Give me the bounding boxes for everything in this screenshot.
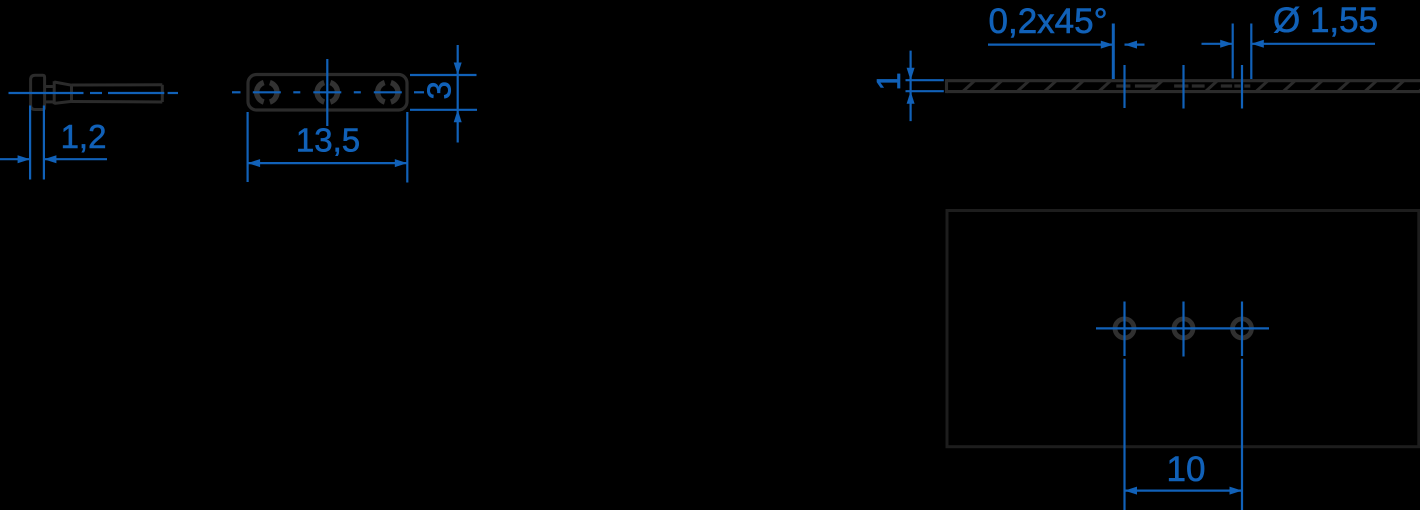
dimension 1,2 extension line right [43, 106, 45, 180]
dimension 1,2 extension line left [29, 106, 31, 180]
hole 3 centerline through rod [1241, 65, 1243, 109]
dimension 0,2x45 arrow left [1101, 41, 1114, 49]
dimension 13,5 arrow right [395, 159, 408, 167]
hole 2 right arc [330, 83, 337, 102]
svg-text:Ø 1,55: Ø 1,55 [1273, 1, 1378, 40]
svg-text:1: 1 [870, 72, 907, 90]
dimension 13,5 extension line left [247, 112, 249, 182]
rivet head [31, 75, 45, 109]
dimension 13,5 extension line right [406, 112, 408, 183]
rivet neck bottom edge [45, 100, 55, 103]
hole 3 circle [1233, 319, 1252, 338]
diameter dimension line right [1251, 43, 1375, 45]
dimension 10 line [1125, 490, 1243, 492]
svg-text:10: 10 [1167, 450, 1206, 489]
dimension 1 arrow bottom [907, 91, 915, 104]
centerline of rivet axis [9, 92, 84, 94]
rivet shaft end edge [161, 85, 164, 102]
dimension 3 extension line bottom [410, 109, 477, 111]
centerline of strip [232, 91, 241, 93]
dimension 3 arrow bottom [454, 110, 462, 123]
diameter dimension extension line right [1250, 24, 1252, 80]
svg-text:13,5: 13,5 [296, 122, 360, 159]
dimension 3 arrow top [454, 63, 462, 76]
hole 2 left arc [317, 83, 324, 102]
diameter dimension arrow left [1220, 40, 1233, 48]
diameter dimension extension line left [1232, 24, 1234, 79]
dimension 1,2 arrow left [18, 155, 31, 163]
hole 3 right arc [391, 83, 398, 102]
hole 2 vertical centerline [1182, 302, 1184, 357]
rivet shaft top edge [72, 83, 163, 86]
section hatching [963, 81, 1420, 92]
dimension 10 extension line right [1241, 359, 1243, 510]
strip rectangle outline [947, 211, 1419, 447]
rivet cone top edge [54, 82, 71, 85]
hole 2 centerline through rod [1182, 65, 1184, 109]
hole 3 vertical centerline [1241, 302, 1243, 357]
svg-text:3: 3 [421, 81, 458, 99]
rod left end edge [945, 79, 948, 93]
hole 1 centerline through rod [1123, 65, 1125, 108]
svg-text:0,2x45°: 0,2x45° [989, 2, 1108, 41]
hole 3 left arc [378, 83, 385, 102]
rivet shaft bottom edge [72, 100, 163, 104]
chamfer dimension extension line [1112, 24, 1115, 80]
svg-text:1,2: 1,2 [61, 118, 107, 155]
hole 1 left arc [257, 83, 264, 102]
dimension 1 extension line bottom [906, 90, 944, 92]
dimension 13,5 arrow left [248, 159, 261, 167]
dimension 1,2 line left segment [0, 158, 30, 160]
diameter dimension line left [1202, 43, 1233, 45]
rivet neck top edge [45, 85, 55, 88]
strip plate outline [248, 75, 407, 111]
hole 1 right arc [270, 83, 277, 102]
dimension 3 line vertical [457, 45, 459, 143]
dimension 10 arrow right [1230, 487, 1243, 495]
dimension 10 extension line left [1123, 359, 1125, 510]
dimension 0,2x45 line right [1125, 43, 1145, 45]
dimension 0,2x45 line left [988, 43, 1113, 45]
dimension 13,5 line [248, 162, 408, 164]
dimension 1 line vertical [909, 51, 911, 122]
diameter dimension arrow right [1251, 40, 1264, 48]
rod bottom edge [947, 90, 1420, 93]
dimension 1,2 line right segment [44, 158, 107, 160]
holes horizontal centerline [1096, 327, 1269, 329]
rivet cone bottom edge [54, 101, 71, 103]
hole 1 vertical centerline [1123, 302, 1125, 357]
hole hidden mid line dashes [1116, 84, 1250, 87]
rivet cone left edge [53, 81, 56, 104]
rivet shaft junction edge [70, 85, 73, 101]
dimension 1,2 arrow right [44, 155, 57, 163]
dimension 3 extension line top [410, 74, 477, 76]
dimension 1 extension line top [906, 79, 944, 81]
hole 2 circle [1174, 319, 1193, 338]
dimension 0,2x45 arrow right [1125, 41, 1138, 49]
dimension 1 arrow top [907, 68, 915, 81]
rod top edge [947, 79, 1420, 82]
dimension 10 arrow left [1125, 487, 1138, 495]
centerline of middle hole vertical [326, 59, 328, 126]
hole 1 circle [1115, 319, 1134, 338]
